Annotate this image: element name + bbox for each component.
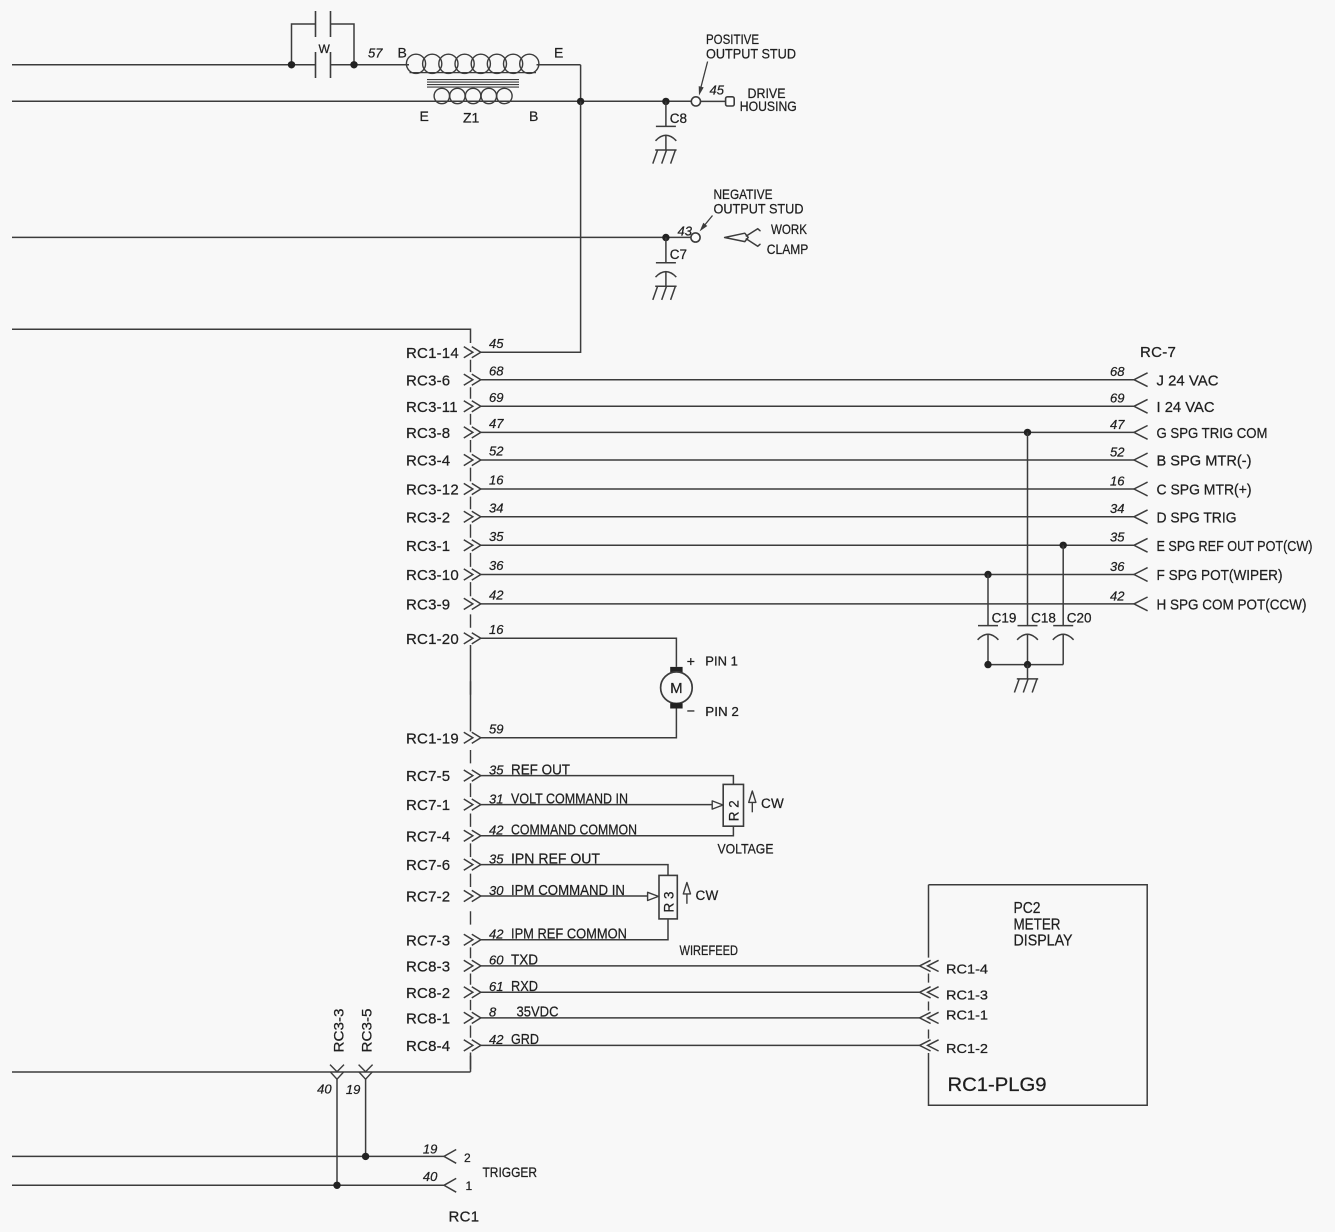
connector RC7-1 chevron: [464, 799, 481, 810]
wire RC3-2 to RC-7 pin D: [481, 516, 1134, 518]
svg-text:RC1-19: RC1-19: [406, 730, 459, 747]
connector RC-7 F chevron: [1134, 568, 1148, 582]
capacitor C19: [978, 625, 998, 627]
wire RC1-20 to motor +: [481, 638, 677, 667]
wire bottom bus to connector column: [12, 1071, 471, 1073]
wire bypass branch left: [292, 24, 316, 65]
svg-text:E: E: [420, 108, 429, 124]
svg-text:36: 36: [489, 558, 504, 573]
wire weld output line (top) left segment: [12, 64, 316, 66]
svg-text:RC3-2: RC3-2: [406, 509, 450, 526]
svg-text:PIN 2: PIN 2: [705, 704, 739, 719]
connector meter RC1-4 chevron: [920, 960, 939, 971]
junction dot cap bus left: [984, 661, 991, 668]
wire RC7-6 to R3 top: [481, 865, 668, 876]
left connector solid segment to bottom wire: [470, 1053, 472, 1072]
ground below C7: [653, 286, 677, 300]
connector RC-7 I chevron: [1134, 399, 1148, 413]
svg-text:PIN 1: PIN 1: [705, 653, 738, 668]
capacitor C18: [1018, 625, 1038, 627]
leader arrow to positive stud: [701, 62, 708, 89]
connector RC1-19 chevron: [464, 732, 481, 743]
svg-text:36: 36: [1110, 559, 1125, 574]
wire RC3-5 drop to trigger 2: [365, 1079, 367, 1156]
connector RC8-1 chevron: [464, 1012, 481, 1023]
svg-text:RC8-4: RC8-4: [406, 1038, 450, 1055]
svg-text:−: −: [687, 703, 695, 719]
drive housing terminal: [726, 97, 735, 106]
R2 CW arrow: [751, 803, 753, 813]
negative output stud circle: [691, 233, 700, 242]
svg-text:40: 40: [317, 1082, 332, 1097]
connector RC3-5 chevron (inline): [359, 1065, 373, 1080]
connector RC1-20 chevron: [464, 633, 481, 644]
connector RC8-3 chevron: [464, 960, 481, 971]
wire bus to ground: [1027, 665, 1029, 679]
positive output stud circle: [691, 97, 700, 106]
wire C18 drop: [1027, 432, 1029, 625]
motor M1 body: [661, 672, 693, 704]
svg-text:RC1-2: RC1-2: [946, 1041, 988, 1056]
svg-text:I 24 VAC: I 24 VAC: [1157, 399, 1215, 416]
transformer Z1 core: [427, 80, 519, 88]
svg-text:RC7-2: RC7-2: [406, 889, 450, 906]
wire RC3-12 to RC-7 pin C: [481, 488, 1134, 490]
svg-text:H SPG COM POT(CCW): H SPG COM POT(CCW): [1157, 597, 1307, 614]
svg-text:C SPG MTR(+): C SPG MTR(+): [1157, 482, 1252, 499]
svg-text:B: B: [398, 45, 407, 61]
svg-text:57: 57: [368, 46, 383, 61]
wire stud to drive housing: [701, 100, 726, 102]
wire capacitor ground bus: [988, 664, 1063, 666]
wire RC8-4 to meter RC1-2: [481, 1044, 920, 1046]
capacitor W upper (bypass): [316, 11, 331, 37]
svg-text:OUTPUT STUD: OUTPUT STUD: [714, 200, 804, 216]
svg-text:19: 19: [423, 1142, 437, 1157]
svg-text:43: 43: [678, 223, 693, 238]
wire weld negative line: [12, 236, 691, 238]
svg-text:42: 42: [489, 588, 504, 603]
work clamp symbol: [725, 233, 749, 241]
svg-text:C18: C18: [1031, 611, 1056, 626]
junction dot at 581/101: [577, 98, 584, 105]
svg-text:OUTPUT STUD: OUTPUT STUD: [706, 45, 796, 61]
svg-text:RC3-6: RC3-6: [406, 372, 450, 389]
wire from primary E down to line 2: [580, 65, 582, 102]
svg-text:42: 42: [1110, 588, 1125, 603]
svg-text:19: 19: [346, 1082, 360, 1097]
svg-text:+: +: [687, 653, 695, 669]
junction dot E row / C20: [1060, 542, 1067, 549]
svg-text:RC3-8: RC3-8: [406, 425, 450, 442]
svg-text:METER: METER: [1014, 916, 1061, 933]
wire RC3-9 to RC-7 pin H: [481, 603, 1134, 605]
svg-text:2: 2: [464, 1151, 471, 1165]
svg-text:C19: C19: [992, 611, 1017, 626]
wire RC8-2 to meter RC1-3: [481, 991, 920, 993]
capacitor C8: [656, 101, 676, 150]
wire C19 drop: [987, 575, 989, 626]
svg-text:RC1-4: RC1-4: [946, 961, 988, 976]
motor M1 terminal + (pin1): [670, 667, 682, 672]
junction dot trigger 1: [333, 1182, 340, 1189]
left connector solid segment RC1-20 to RC1-19: [470, 645, 472, 732]
junction dot right of capacitor W: [350, 61, 357, 68]
svg-text:52: 52: [489, 444, 504, 459]
svg-text:B SPG MTR(-): B SPG MTR(-): [1157, 453, 1252, 470]
wire trigger 1: [12, 1184, 445, 1186]
svg-text:TRIGGER: TRIGGER: [483, 1164, 538, 1180]
svg-text:RC1-PLG9: RC1-PLG9: [948, 1075, 1047, 1096]
R3 CW arrow: [686, 894, 688, 904]
svg-text:RC1: RC1: [449, 1208, 480, 1225]
svg-text:J 24 VAC: J 24 VAC: [1157, 372, 1219, 389]
junction dot cap bus center: [1024, 661, 1031, 668]
svg-text:RC8-2: RC8-2: [406, 985, 450, 1002]
wire RC1-14 to weld line: [481, 101, 581, 352]
svg-text:34: 34: [1110, 501, 1124, 516]
connector RC3-9 chevron: [464, 598, 481, 609]
svg-text:RC1-3: RC1-3: [946, 988, 988, 1003]
junction dot F row / C19: [984, 571, 991, 578]
svg-text:45: 45: [489, 336, 504, 351]
connector RC3-11 chevron: [464, 401, 481, 412]
connector RC-7 D chevron: [1134, 510, 1148, 524]
wire weld output line between cap and transformer: [331, 64, 410, 66]
R3 wiper arrow: [648, 892, 659, 900]
junction dot at C7 tap: [662, 234, 669, 241]
wire weld output line 2: [12, 100, 691, 102]
connector RC3-12 chevron: [464, 483, 481, 494]
svg-text:RC7-3: RC7-3: [406, 932, 450, 949]
junction dot trigger 2: [362, 1153, 369, 1160]
wire C20 drop: [1062, 545, 1064, 625]
wire RC3-4 to RC-7 pin B: [481, 459, 1134, 461]
transformer Z1 secondary winding: [434, 88, 449, 103]
svg-text:16: 16: [1110, 473, 1125, 488]
wire RC3-11 to RC-7 pin I: [481, 405, 1134, 407]
capacitor C7: [656, 238, 676, 287]
svg-text:16: 16: [489, 622, 504, 637]
connector RC7-3 chevron: [464, 934, 481, 945]
svg-text:RC8-1: RC8-1: [406, 1011, 450, 1028]
svg-text:M: M: [670, 680, 683, 697]
svg-text:PC2: PC2: [1014, 900, 1041, 917]
connector RC-7 E chevron: [1134, 538, 1148, 552]
svg-text:47: 47: [489, 416, 504, 431]
connector RC-7 B chevron: [1134, 453, 1148, 467]
wire RC7-1 to R2 wiper: [481, 804, 712, 806]
svg-text:68: 68: [1110, 364, 1125, 379]
svg-text:RC3-11: RC3-11: [406, 399, 458, 416]
svg-text:RC7-5: RC7-5: [406, 768, 450, 785]
svg-text:69: 69: [1110, 391, 1124, 406]
svg-text:RC1-20: RC1-20: [406, 631, 459, 648]
connector RC3-2 chevron: [464, 511, 481, 522]
svg-text:R 2: R 2: [726, 800, 741, 821]
connector meter RC1-1 chevron: [920, 1012, 939, 1023]
svg-text:RC3-5: RC3-5: [359, 1008, 375, 1052]
wire RC3-1 to RC-7 pin E: [481, 544, 1134, 546]
svg-text:G SPG TRIG COM: G SPG TRIG COM: [1157, 425, 1268, 442]
svg-text:DISPLAY: DISPLAY: [1014, 933, 1073, 950]
svg-text:VOLTAGE: VOLTAGE: [718, 840, 774, 856]
wire RC8-3 to meter RC1-4: [481, 965, 920, 967]
svg-text:RC3-1: RC3-1: [406, 538, 450, 555]
svg-text:CLAMP: CLAMP: [767, 241, 809, 257]
svg-text:C7: C7: [670, 247, 687, 262]
potentiometer R2 body: [723, 784, 743, 826]
svg-text:35: 35: [489, 529, 504, 544]
connector RC-7 H chevron: [1134, 597, 1148, 611]
svg-text:RC3-3: RC3-3: [330, 1008, 346, 1052]
svg-text:RC1-1: RC1-1: [946, 1008, 988, 1023]
wire RC7-4 to R2 bottom: [481, 826, 734, 836]
svg-text:47: 47: [1110, 417, 1125, 432]
svg-text:RC7-4: RC7-4: [406, 828, 450, 845]
meter display box PC2: [929, 885, 1148, 1105]
svg-text:68: 68: [489, 363, 504, 378]
connector RC7-6 chevron: [464, 859, 481, 870]
svg-text:C20: C20: [1067, 611, 1092, 626]
svg-text:F SPG POT(WIPER): F SPG POT(WIPER): [1157, 567, 1283, 584]
connector RC7-2 chevron: [464, 890, 481, 901]
connector RC-7 C chevron: [1134, 482, 1148, 496]
svg-text:RC3-9: RC3-9: [406, 597, 450, 614]
svg-text:1: 1: [466, 1179, 473, 1193]
svg-text:45: 45: [710, 83, 725, 98]
connector meter RC1-2 chevron: [920, 1040, 939, 1051]
svg-text:69: 69: [489, 390, 503, 405]
svg-text:RC3-12: RC3-12: [406, 482, 459, 499]
svg-text:C8: C8: [670, 111, 687, 126]
ground below C18/C19/C20: [1014, 679, 1038, 693]
wire RC3-6 to RC-7 pin J: [481, 379, 1134, 381]
svg-text:WIREFEED: WIREFEED: [680, 942, 739, 958]
connector RC1 pin 2 chevron: [444, 1150, 456, 1164]
svg-text:W: W: [319, 42, 331, 56]
svg-text:D SPG TRIG: D SPG TRIG: [1157, 509, 1237, 526]
svg-text:35: 35: [1110, 530, 1125, 545]
connector RC3-3 chevron (inline): [330, 1065, 344, 1080]
svg-text:RC3-10: RC3-10: [406, 567, 459, 584]
svg-text:RC1-14: RC1-14: [406, 345, 459, 362]
connector RC3-4 chevron: [464, 454, 481, 465]
junction dot at C8 tap: [662, 98, 669, 105]
svg-text:RC7-6: RC7-6: [406, 857, 450, 874]
svg-text:RC3-4: RC3-4: [406, 453, 450, 470]
ground below C8: [653, 150, 677, 164]
junction dot G row / C18: [1024, 429, 1031, 436]
wire bypass branch right: [331, 24, 355, 65]
wire feed into left connector bus: [12, 329, 471, 343]
svg-text:Z1: Z1: [463, 110, 480, 126]
svg-text:34: 34: [489, 501, 503, 516]
wire RC3-3 drop to trigger 1: [336, 1079, 338, 1185]
svg-text:CW: CW: [696, 888, 719, 903]
svg-text:E SPG REF OUT POT(CW): E SPG REF OUT POT(CW): [1157, 538, 1313, 555]
svg-text:52: 52: [1110, 444, 1125, 459]
svg-text:RC8-3: RC8-3: [406, 959, 450, 976]
capacitor C20: [1053, 625, 1073, 627]
potentiometer R3 body: [659, 875, 677, 919]
connector RC3-10 chevron: [464, 569, 481, 580]
connector RC-7 J chevron: [1134, 373, 1148, 387]
svg-text:RC7-1: RC7-1: [406, 797, 450, 814]
connector RC7-5 chevron: [464, 770, 481, 781]
wire RC3-10 to RC-7 pin F: [481, 574, 1134, 576]
connector RC8-4 chevron: [464, 1040, 481, 1051]
connector RC3-6 chevron: [464, 374, 481, 385]
svg-text:59: 59: [489, 722, 503, 737]
connector RC7-4 chevron: [464, 830, 481, 841]
wire RC7-5 to R2 top: [481, 776, 734, 785]
svg-text:40: 40: [423, 1169, 438, 1184]
motor M1 terminal - (pin2): [670, 703, 682, 708]
connector RC3-8 chevron: [464, 427, 481, 438]
wire RC7-2 to R3 wiper: [481, 895, 648, 897]
wire RC3-8 to RC-7 pin G: [481, 431, 1134, 433]
wire RC8-1 to meter RC1-1: [481, 1017, 920, 1019]
svg-text:RC-7: RC-7: [1140, 344, 1176, 361]
connector RC8-2 chevron: [464, 987, 481, 998]
connector RC3-1 chevron: [464, 540, 481, 551]
connector RC1 pin 1 chevron: [444, 1178, 456, 1192]
svg-text:WORK: WORK: [771, 221, 808, 237]
connector meter RC1-3 chevron: [920, 987, 939, 998]
junction dot left of capacitor W: [288, 61, 295, 68]
svg-text:R 3: R 3: [661, 891, 676, 912]
svg-text:E: E: [554, 45, 563, 61]
wire RC7-3 to R3 bottom: [481, 919, 668, 940]
transformer Z1 primary winding: [406, 54, 425, 73]
connector RC-7 G chevron: [1134, 426, 1148, 440]
left connector boundary (dashed): [470, 360, 472, 1069]
R2 wiper arrow: [712, 801, 723, 809]
capacitor W lower (in line): [316, 52, 331, 78]
svg-text:B: B: [529, 108, 538, 124]
connector RC1-14 chevron: [464, 347, 481, 358]
leader arrow to negative stud: [704, 216, 713, 227]
wire trigger 2: [12, 1155, 445, 1157]
wire motor - to RC1-19: [481, 709, 677, 738]
svg-text:CW: CW: [761, 796, 784, 811]
svg-text:16: 16: [489, 473, 504, 488]
svg-text:HOUSING: HOUSING: [740, 98, 797, 114]
